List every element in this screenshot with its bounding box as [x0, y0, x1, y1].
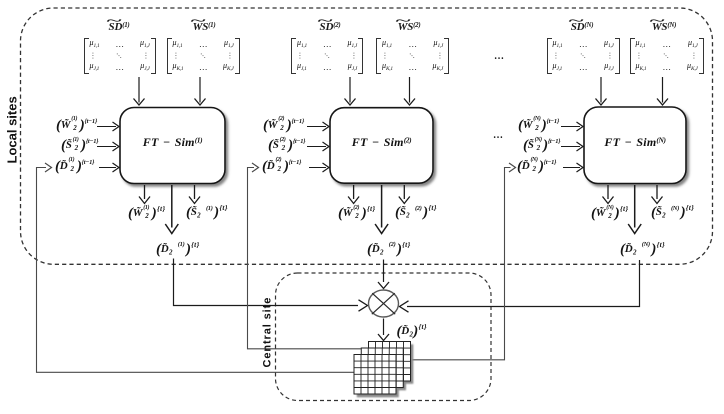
- wire SD matrix site1 into FT-Sim box: [134, 77, 145, 105]
- wire D1 result to aggregator: [174, 259, 368, 312]
- FT-Sim 2 text: [330, 135, 433, 150]
- D output arrow site1: [165, 185, 178, 234]
- processing box FT-Sim site 1: [120, 108, 225, 184]
- siteN input label S: [523, 133, 560, 150]
- Central site label: [261, 299, 272, 367]
- Central site dashed boundary: [276, 273, 492, 401]
- aggregator cross-in-circle node: [369, 290, 399, 317]
- site2 input label D: [262, 154, 301, 171]
- wire DN result to aggregator: [400, 260, 640, 312]
- site2 input label S: [268, 133, 305, 150]
- matrix label WS(1): [185, 21, 223, 33]
- D output arrow site2: [375, 185, 388, 234]
- matrix WS2: [376, 38, 449, 74]
- site1 input label W: [56, 113, 97, 130]
- site1 input label D: [55, 154, 94, 171]
- matrix SD1: [84, 38, 156, 74]
- feedback wire aggregate D to site1 D input: [37, 163, 355, 372]
- matrix label SD(1): [100, 21, 138, 33]
- D input arrow site1: [99, 163, 119, 172]
- matrix WSN: [630, 38, 704, 74]
- wire WS matrix site1 into FT-Sim box: [195, 77, 206, 105]
- S output arrow site2: [399, 185, 410, 204]
- S input arrow site1: [97, 142, 119, 151]
- S input arrow site N: [561, 142, 583, 151]
- siteN output label W: [591, 200, 629, 217]
- D output arrow site N: [628, 185, 641, 234]
- siteN input label W: [518, 113, 559, 130]
- W input arrow site N: [561, 122, 583, 131]
- result matrix stack middle sheet: [361, 348, 403, 388]
- FT-Sim 1 text: [120, 135, 225, 150]
- feedback wire aggregate D to site2 D input: [248, 163, 362, 349]
- site1 output label S: [186, 199, 228, 216]
- matrix SDN: [547, 38, 620, 74]
- D input arrow site2: [309, 163, 329, 172]
- dots between site2 and siteN (top): [494, 51, 505, 62]
- site2 output label S: [395, 199, 437, 216]
- siteN output label D: [620, 236, 665, 253]
- result matrix stack shadow: [357, 344, 414, 397]
- S output arrow site N: [652, 185, 663, 204]
- W input arrow site1: [97, 122, 119, 131]
- siteN input label D: [517, 154, 556, 171]
- W output arrow site N: [603, 185, 614, 204]
- S input arrow site2: [307, 142, 329, 151]
- processing box FT-Sim site N: [584, 107, 686, 184]
- site1 input label S: [61, 133, 98, 150]
- site2 input label W: [263, 113, 304, 130]
- matrix label SD(2): [311, 21, 349, 33]
- site1 output label D: [156, 236, 200, 253]
- result matrix stack front sheet: [354, 355, 396, 395]
- siteN output label S: [651, 199, 694, 216]
- wire SD matrix site N into FT-Sim box: [596, 77, 607, 105]
- site2 output label W: [338, 200, 376, 217]
- wire WS matrix site2 into FT-Sim box: [404, 77, 415, 105]
- processing box FT-Sim site 2: [330, 108, 433, 184]
- Local sites dashed boundary: [21, 8, 713, 264]
- result matrix stack back sheet: [369, 342, 411, 382]
- dots between site2 and siteN (middle): [493, 130, 504, 141]
- site2 output label D: [367, 236, 411, 253]
- wire WS matrix site N into FT-Sim box: [657, 77, 668, 105]
- wire aggregator to result matrix stack: [378, 319, 389, 341]
- feedback wire aggregate D to site N D input: [412, 163, 516, 360]
- wire D2 result to aggregator: [378, 260, 389, 289]
- aggregated D label near circle: [397, 318, 427, 335]
- W output arrow site1: [139, 185, 150, 204]
- matrix label WS(2): [390, 21, 428, 33]
- matrix label WS(N): [645, 21, 683, 33]
- wire SD matrix site2 into FT-Sim box: [345, 77, 356, 105]
- D input arrow site N: [563, 163, 583, 172]
- site1 output label W: [128, 200, 166, 217]
- S output arrow site1: [189, 185, 200, 204]
- FT-Sim N text: [584, 135, 686, 150]
- W output arrow site2: [348, 185, 359, 204]
- matrix SD2: [291, 38, 363, 74]
- Local sites label: [4, 103, 16, 164]
- W input arrow site2: [307, 122, 329, 131]
- matrix label SD(N): [563, 21, 601, 33]
- matrix WS1: [167, 38, 240, 74]
